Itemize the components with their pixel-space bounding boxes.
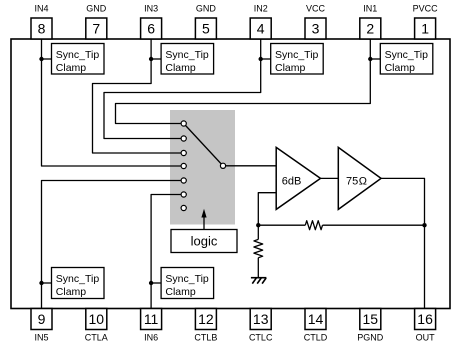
switch contact 6	[181, 192, 186, 197]
svg-text:OUT: OUT	[416, 333, 436, 343]
svg-text:12: 12	[198, 311, 214, 327]
sync tip clamp block (IN3)	[161, 44, 214, 75]
svg-text:2: 2	[366, 21, 374, 37]
sync tip clamp block (IN1)	[380, 44, 433, 75]
sync tip clamp block (IN4)	[52, 44, 105, 75]
svg-text:VCC: VCC	[306, 4, 326, 14]
svg-text:Clamp: Clamp	[385, 62, 416, 74]
switch contact 2	[181, 136, 186, 141]
pin 9	[31, 309, 52, 343]
svg-text:IN1: IN1	[363, 4, 377, 14]
junction dot feedback left node	[256, 223, 260, 227]
pin 6	[141, 4, 162, 39]
svg-text:CTLC: CTLC	[249, 333, 273, 343]
ground	[251, 278, 267, 284]
svg-text:11: 11	[144, 311, 159, 327]
switch contact 5	[181, 178, 186, 183]
svg-text:Sync_Tip: Sync_Tip	[56, 49, 100, 61]
op-amp A2 (75 ohm driver)	[338, 147, 381, 209]
svg-text:IN5: IN5	[34, 333, 48, 343]
svg-text:16: 16	[417, 311, 433, 327]
junction dot IN2/clamp	[259, 57, 263, 61]
svg-text:Clamp: Clamp	[165, 62, 196, 74]
wire switch common to amp input	[223, 165, 276, 167]
pin 2	[360, 4, 381, 39]
wire A2 output to pin16	[381, 178, 424, 308]
pin 11	[141, 309, 162, 343]
svg-text:15: 15	[363, 311, 379, 327]
svg-text:10: 10	[89, 311, 105, 327]
svg-text:4: 4	[257, 21, 265, 37]
pin 10	[85, 309, 108, 343]
svg-text:7: 7	[92, 21, 100, 37]
svg-text:8: 8	[38, 21, 46, 37]
svg-text:14: 14	[308, 311, 324, 327]
wire clamp tap pin4	[261, 58, 271, 60]
switch contact 1	[181, 121, 186, 126]
sync tip clamp block (IN2)	[271, 44, 324, 75]
svg-text:CTLB: CTLB	[194, 333, 217, 343]
wire clamp tap pin11	[151, 282, 161, 284]
svg-text:Clamp: Clamp	[56, 62, 87, 74]
wire clamp tap pin6	[151, 58, 161, 60]
switch contact 4	[181, 163, 186, 168]
op-amp A1 (6dB)	[276, 147, 320, 209]
switch common contact	[220, 163, 225, 168]
pin 1	[413, 4, 439, 39]
junction dot IN3/clamp	[149, 57, 153, 61]
svg-text:Clamp: Clamp	[165, 286, 196, 298]
svg-text:Clamp: Clamp	[56, 286, 87, 298]
logic control arrow	[203, 216, 205, 230]
sync tip clamp block (IN6)	[161, 268, 214, 299]
svg-text:Sync_Tip: Sync_Tip	[385, 49, 429, 61]
wire clamp tap pin8	[42, 58, 53, 60]
switch block (gray region)	[170, 110, 235, 225]
svg-text:5: 5	[202, 21, 210, 37]
svg-text:Sync_Tip: Sync_Tip	[165, 273, 209, 285]
wire IN1 net (pin2 to switch contact 1)	[116, 39, 371, 124]
pin 3	[305, 4, 326, 39]
resistor R1 (to ground)	[254, 239, 263, 257]
svg-text:CTLD: CTLD	[304, 333, 328, 343]
junction dot IN6/clamp	[149, 281, 153, 285]
junction dot IN1/clamp	[368, 57, 372, 61]
wire feedback to A1 lower input	[258, 193, 276, 226]
IC outline U1	[11, 39, 450, 309]
wire node to resistor R1	[257, 225, 259, 239]
switch arm (selector from contact 1 to common)	[184, 124, 223, 166]
svg-text:PVCC: PVCC	[413, 4, 439, 14]
junction dot output node	[422, 223, 426, 227]
pin 5	[195, 4, 216, 39]
svg-text:13: 13	[253, 311, 269, 327]
pin 16	[415, 309, 436, 343]
svg-text:6dB: 6dB	[282, 175, 302, 187]
svg-text:CTLA: CTLA	[85, 333, 108, 343]
svg-text:IN4: IN4	[34, 4, 48, 14]
pin 12	[194, 309, 217, 343]
sync tip clamp block (IN5)	[52, 268, 105, 299]
svg-text:6: 6	[147, 21, 155, 37]
wire feedback left segment	[258, 224, 305, 226]
svg-text:9: 9	[38, 311, 46, 327]
svg-text:Sync_Tip: Sync_Tip	[165, 49, 209, 61]
pin 15	[357, 309, 384, 343]
svg-text:1: 1	[421, 21, 429, 37]
switch contact 7 (unused)	[181, 205, 186, 210]
pin 8	[31, 4, 52, 39]
junction dot IN4/clamp	[39, 57, 43, 61]
wire A1 out to A2 in	[321, 177, 339, 179]
svg-text:IN6: IN6	[144, 333, 158, 343]
svg-text:75Ω: 75Ω	[346, 175, 367, 187]
svg-text:3: 3	[312, 21, 320, 37]
resistor RF (feedback)	[305, 221, 322, 230]
pin 7	[86, 4, 107, 39]
logic box	[171, 230, 237, 253]
pin 13	[249, 309, 273, 343]
wire IN3 net (pin6 to switch contact 3)	[93, 39, 184, 153]
wire IN6 net (pin11 to switch contact 6)	[151, 195, 184, 309]
svg-text:GND: GND	[86, 4, 107, 14]
svg-text:GND: GND	[196, 4, 217, 14]
svg-text:IN2: IN2	[254, 4, 268, 14]
wire resistor to ground	[257, 258, 259, 278]
svg-text:IN3: IN3	[144, 4, 158, 14]
pin 14	[304, 309, 328, 343]
switch contact 3	[181, 150, 186, 155]
svg-text:Sync_Tip: Sync_Tip	[56, 273, 100, 285]
svg-text:Clamp: Clamp	[275, 62, 306, 74]
svg-text:Sync_Tip: Sync_Tip	[275, 49, 319, 61]
svg-text:PGND: PGND	[357, 333, 384, 343]
junction dot IN5/clamp	[39, 281, 43, 285]
pin 4	[250, 4, 271, 39]
wire IN4 net (pin8 to switch contact 4)	[42, 39, 184, 166]
wire IN5 net (pin9 to switch contact 5)	[42, 181, 184, 309]
wire clamp tap pin2	[370, 58, 380, 60]
wire feedback right segment	[323, 224, 425, 226]
wire clamp tap pin9	[42, 282, 53, 284]
svg-text:logic: logic	[191, 234, 218, 249]
wire IN2 net (pin4 to switch contact 2)	[104, 39, 261, 139]
